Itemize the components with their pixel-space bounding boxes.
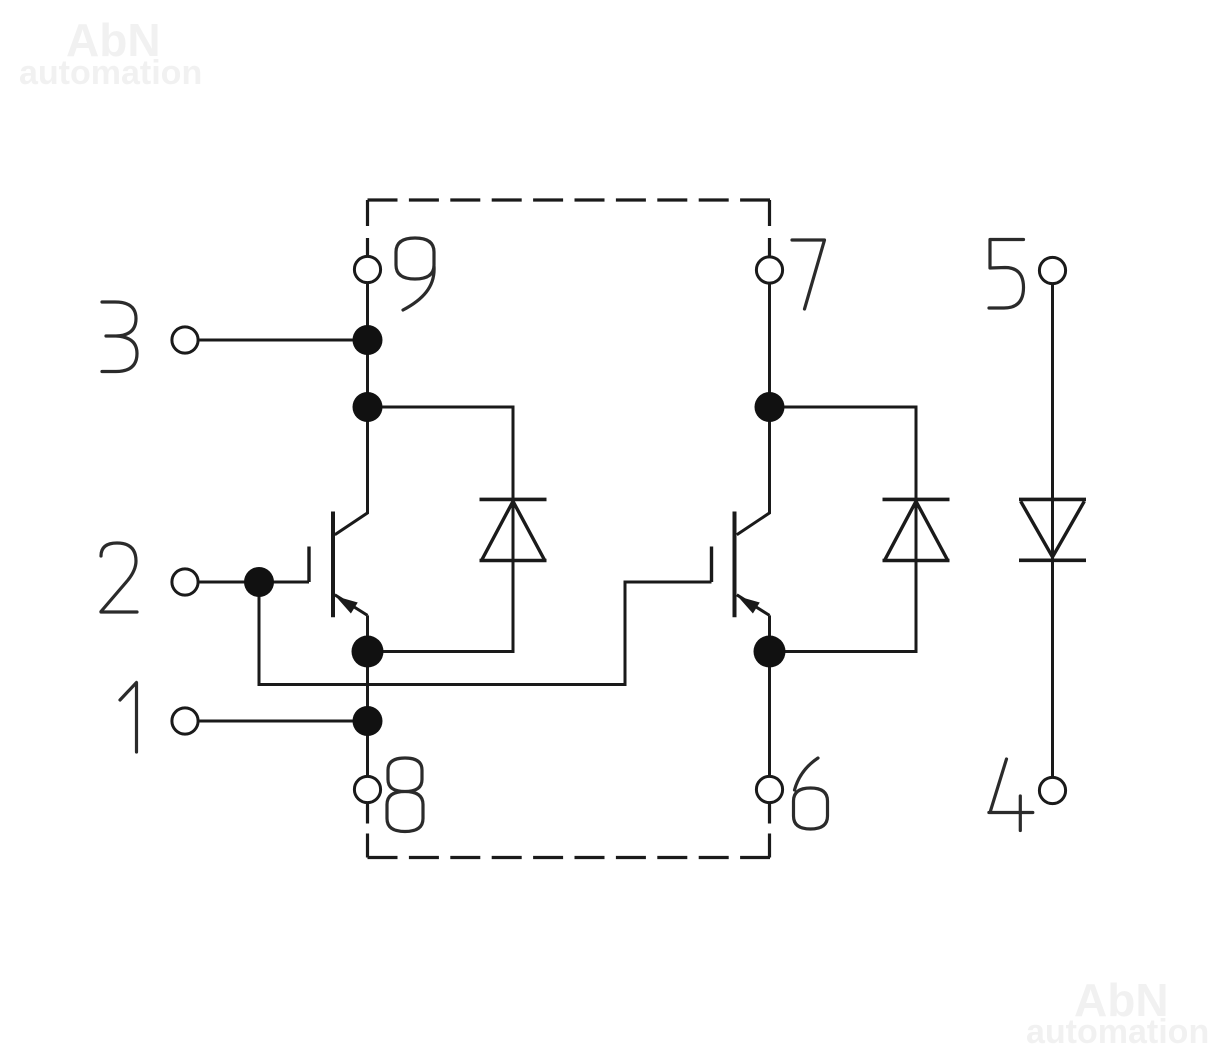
pin 3 terminal circle bbox=[172, 327, 198, 353]
node: gate junction on pin 2 wire bbox=[244, 567, 274, 597]
D1 anode bar bbox=[480, 559, 547, 563]
T1 body bar bbox=[331, 512, 335, 618]
diode D3 (separate, pin5 anode to pin4 cathode) bbox=[1019, 499, 1086, 560]
T2 body bar bbox=[733, 512, 737, 618]
node: emitter junction T2 with D2 branch bbox=[754, 636, 786, 668]
wire pin 2 to gate of T1 bbox=[199, 581, 310, 584]
watermark AbN bottom-right bbox=[1074, 977, 1169, 1023]
node: emitter junction T1 with D1 branch bbox=[352, 636, 384, 668]
transistor Q2 (IGBT T2) bbox=[712, 512, 770, 618]
module outline dashed stub below pin 6 bbox=[768, 804, 771, 858]
transistor Q1 (IGBT T1) bbox=[309, 512, 368, 618]
pin 7 terminal circle bbox=[756, 257, 782, 283]
D2 triangle bbox=[885, 501, 948, 560]
T1 gate electrode bar bbox=[307, 547, 310, 583]
D3 cathode bar bbox=[1019, 558, 1086, 562]
pin label 4 bbox=[989, 759, 1033, 831]
T2 emitter lead bbox=[737, 595, 770, 616]
pin label 7 bbox=[792, 240, 825, 309]
T1 emitter arrow bbox=[338, 598, 357, 613]
module outline dashed stub above pin 7 bbox=[768, 200, 771, 257]
wire collector of IGBT T1 (vertical from pin 9 with bend to bar) bbox=[335, 283, 368, 535]
T2 gate electrode bar bbox=[710, 547, 713, 583]
pin 5 terminal circle bbox=[1039, 257, 1065, 283]
pin 8 terminal circle bbox=[354, 776, 380, 802]
T1 emitter lead bbox=[335, 595, 368, 616]
watermark automation top-left bbox=[19, 56, 202, 90]
module outline dashed top edge bbox=[368, 198, 771, 201]
T2 emitter arrow bbox=[740, 598, 759, 613]
module outline dashed stub below pin 8 bbox=[366, 804, 369, 858]
pin label 5 bbox=[989, 240, 1024, 309]
wire pin 5 to diode D3 to pin 4 bbox=[1051, 284, 1054, 778]
D3 anode bar bbox=[1019, 498, 1086, 502]
watermark AbN top-left bbox=[66, 17, 161, 63]
wire collector node 2 to diode D2 cathode branch bbox=[770, 407, 917, 652]
pin 1 terminal circle bbox=[172, 708, 198, 734]
wire collector node to diode D1 cathode branch bbox=[368, 407, 514, 652]
wire gate node to gate of IGBT T2 (crossing run) bbox=[259, 582, 712, 685]
diode D1 (anti-parallel with T1) bbox=[480, 499, 547, 560]
module outline dashed bottom edge bbox=[368, 856, 771, 859]
pin 4 terminal circle bbox=[1039, 777, 1065, 803]
node: collector junction 2 with D2 branch bbox=[755, 392, 785, 422]
pin 2 terminal circle bbox=[172, 569, 198, 595]
diode D2 (anti-parallel with T2) bbox=[883, 499, 950, 560]
pin label 9 bbox=[396, 238, 434, 310]
module outline dashed stub above pin 9 bbox=[366, 200, 369, 256]
pin label 1 bbox=[120, 683, 137, 753]
D3 triangle bbox=[1021, 501, 1085, 557]
pin label 8 bbox=[387, 758, 423, 832]
wire collector of IGBT T2 (vertical from pin 7 with bend to bar) bbox=[737, 283, 770, 535]
D1 cathode bar bbox=[480, 498, 547, 502]
pin 9 terminal circle bbox=[354, 256, 380, 282]
D1 triangle bbox=[482, 501, 545, 560]
pin label 6 bbox=[794, 758, 828, 829]
wire emitter of IGBT T1 down to pin 8 bbox=[366, 615, 369, 776]
wire pin 3 to collector node bbox=[199, 339, 368, 342]
node: pin 1 junction on emitter line bbox=[353, 706, 383, 736]
pin label 3 bbox=[102, 302, 137, 372]
D2 anode bar bbox=[883, 559, 950, 563]
wire emitter of IGBT T2 down to pin 6 bbox=[768, 615, 771, 776]
pin 6 terminal circle bbox=[756, 776, 782, 802]
pin label 2 bbox=[101, 543, 137, 612]
D2 cathode bar bbox=[883, 498, 950, 502]
node: collector junction with pin 3 bbox=[353, 325, 383, 355]
wire pin 1 to emitter line bbox=[199, 720, 368, 723]
watermark automation bottom-right bbox=[1026, 1015, 1209, 1049]
node: collector junction with D1 branch bbox=[353, 392, 383, 422]
